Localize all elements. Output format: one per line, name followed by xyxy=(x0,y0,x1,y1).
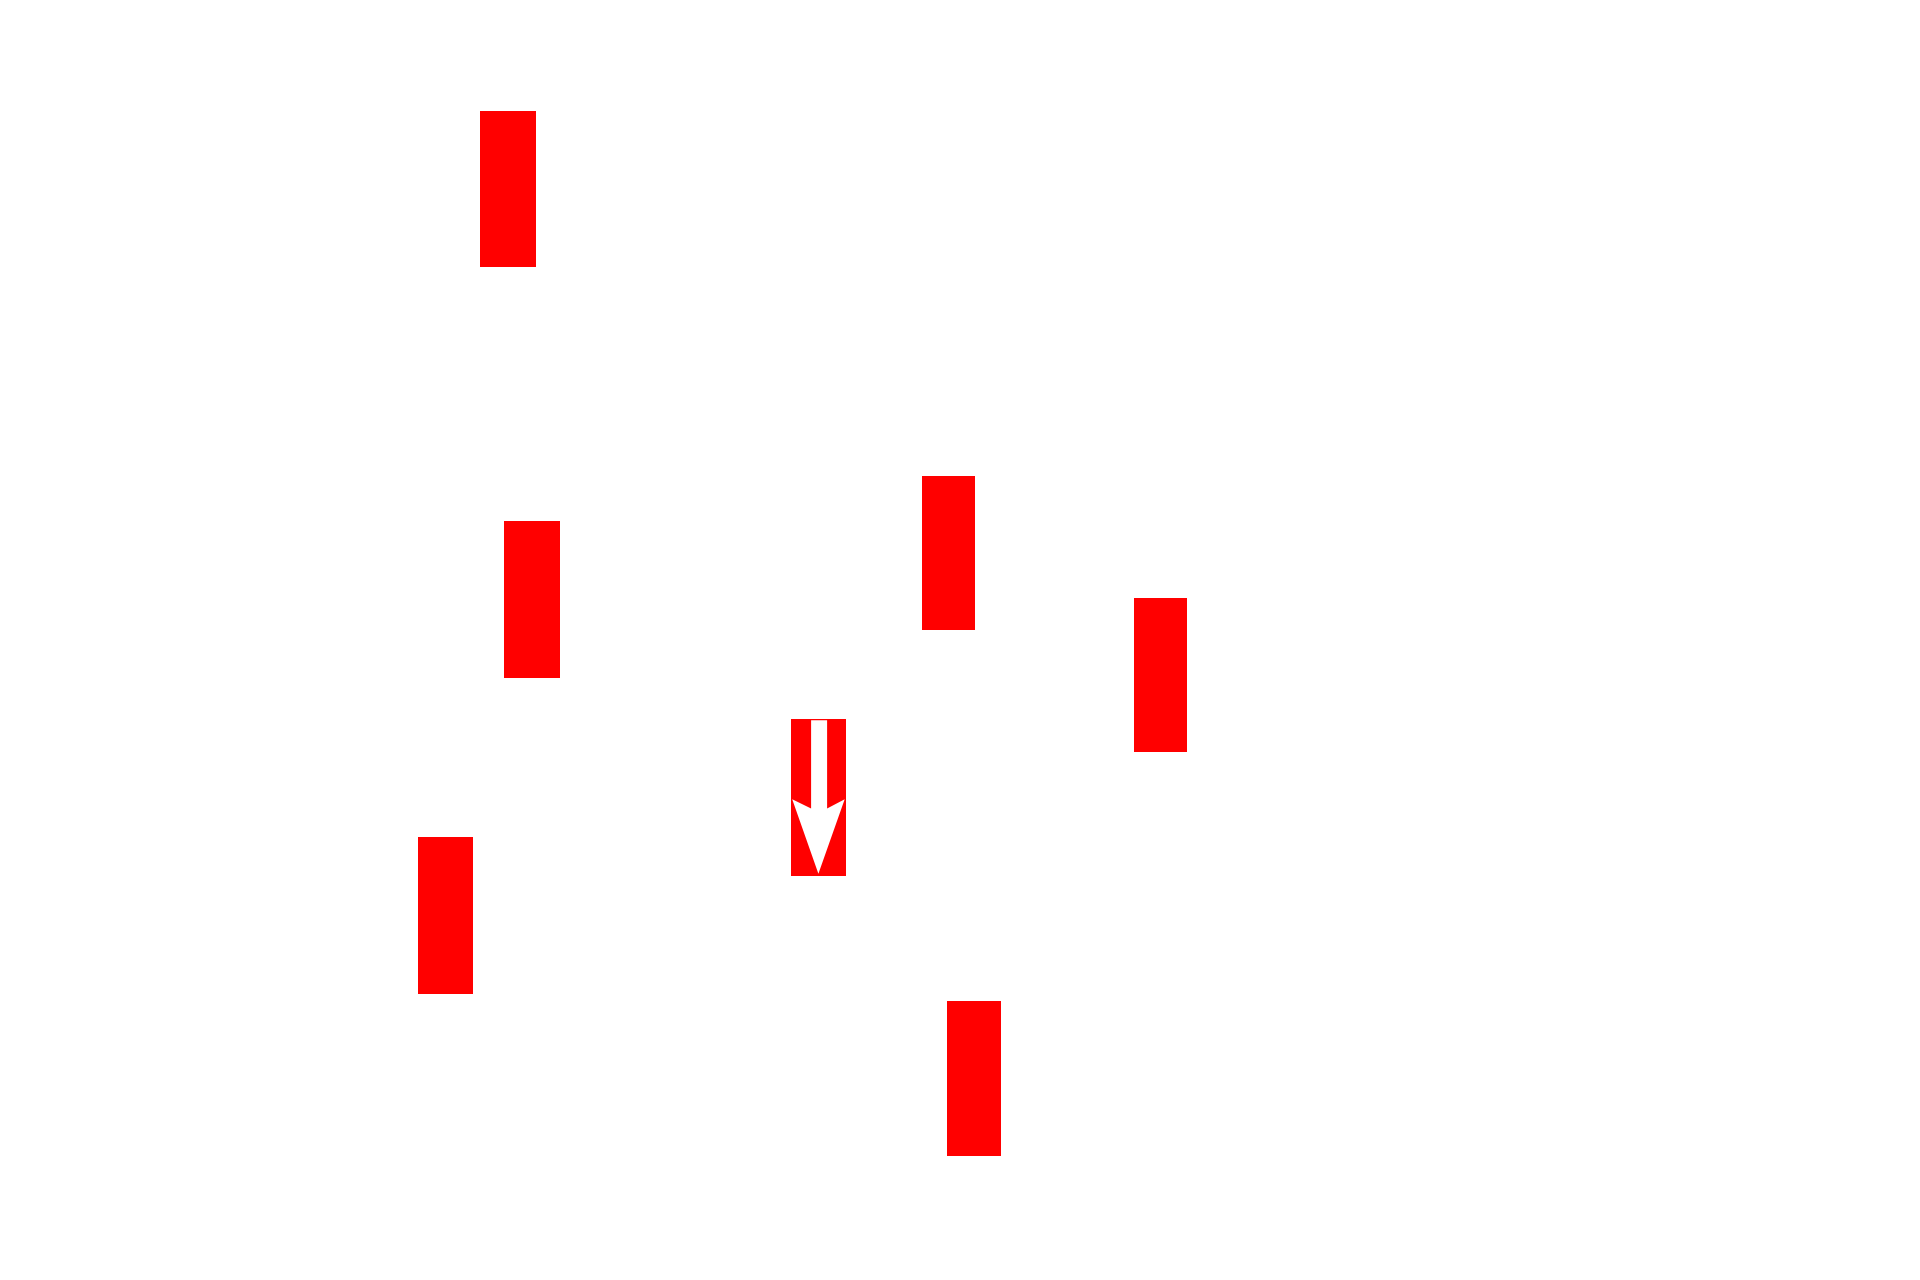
marker 1 (red rectangle, top left) xyxy=(480,111,536,267)
marker 2 (red rectangle, mid left) xyxy=(504,521,560,678)
white down arrow xyxy=(792,720,844,874)
marker 6 (red rectangle, lower left) xyxy=(418,837,473,994)
marker 7 (red rectangle, bottom middle) xyxy=(947,1001,1001,1156)
marker 5 (red rectangle with white down arrow) xyxy=(791,719,846,876)
marker 3 (red rectangle, upper middle) xyxy=(922,476,975,630)
marker 4 (red rectangle, right) xyxy=(1134,598,1187,752)
